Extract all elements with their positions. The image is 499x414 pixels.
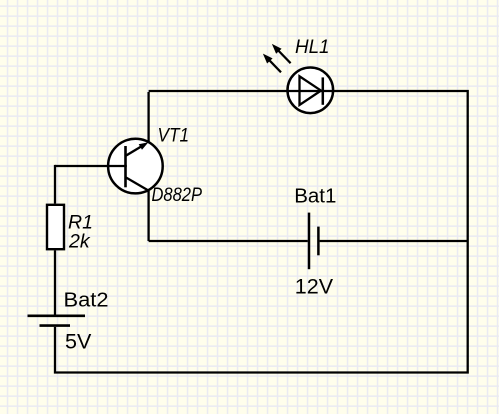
LED HL1 circle body	[288, 68, 334, 114]
wire Bat1 row right (Bat1 plate to right rail)	[320, 240, 468, 242]
wire R1 bottom to battery Bat2	[54, 250, 56, 314]
svg-text:HL1: HL1	[295, 36, 330, 58]
wire collector up to top rail	[147, 92, 149, 142]
svg-text:5V: 5V	[65, 329, 92, 353]
transistor VT1 emitter lead	[126, 177, 149, 191]
battery Bat1 long plate	[308, 213, 311, 270]
transistor VT1 collector lead (arrow to circle edge)	[126, 145, 144, 156]
transistor VT1 collector arrowhead	[139, 142, 149, 150]
LED HL1 diode triangle	[300, 76, 322, 105]
LED HL1 cathode bar	[322, 77, 325, 104]
battery Bat1 short plate	[317, 227, 320, 256]
LED HL1 light arrow upper	[272, 44, 291, 63]
svg-text:Bat2: Bat2	[64, 289, 109, 312]
battery Bat2 long plate	[28, 314, 86, 317]
LED HL1 light arrow lower	[263, 54, 281, 73]
wire emitter down to Bat1 row	[147, 191, 149, 241]
transistor VT1 base bar	[124, 146, 127, 187]
battery Bat2 short plate	[40, 324, 71, 327]
resistor R1 body	[47, 205, 64, 249]
wire main loop: battery Bat2 to bottom rail, right rail, top rail to collector	[55, 91, 468, 373]
svg-text:2k: 2k	[68, 231, 91, 253]
svg-text:D882P: D882P	[152, 184, 203, 206]
svg-text:Bat1: Bat1	[294, 185, 336, 208]
svg-text:12V: 12V	[295, 275, 334, 299]
wire Bat1 row left (emitter node to Bat1 plate)	[149, 240, 308, 242]
wire base (R1 node to transistor base)	[55, 165, 127, 167]
transistor VT1 circle body	[108, 139, 163, 194]
svg-text:VT1: VT1	[158, 125, 190, 147]
wire R1 top (base node down to resistor)	[54, 165, 56, 204]
